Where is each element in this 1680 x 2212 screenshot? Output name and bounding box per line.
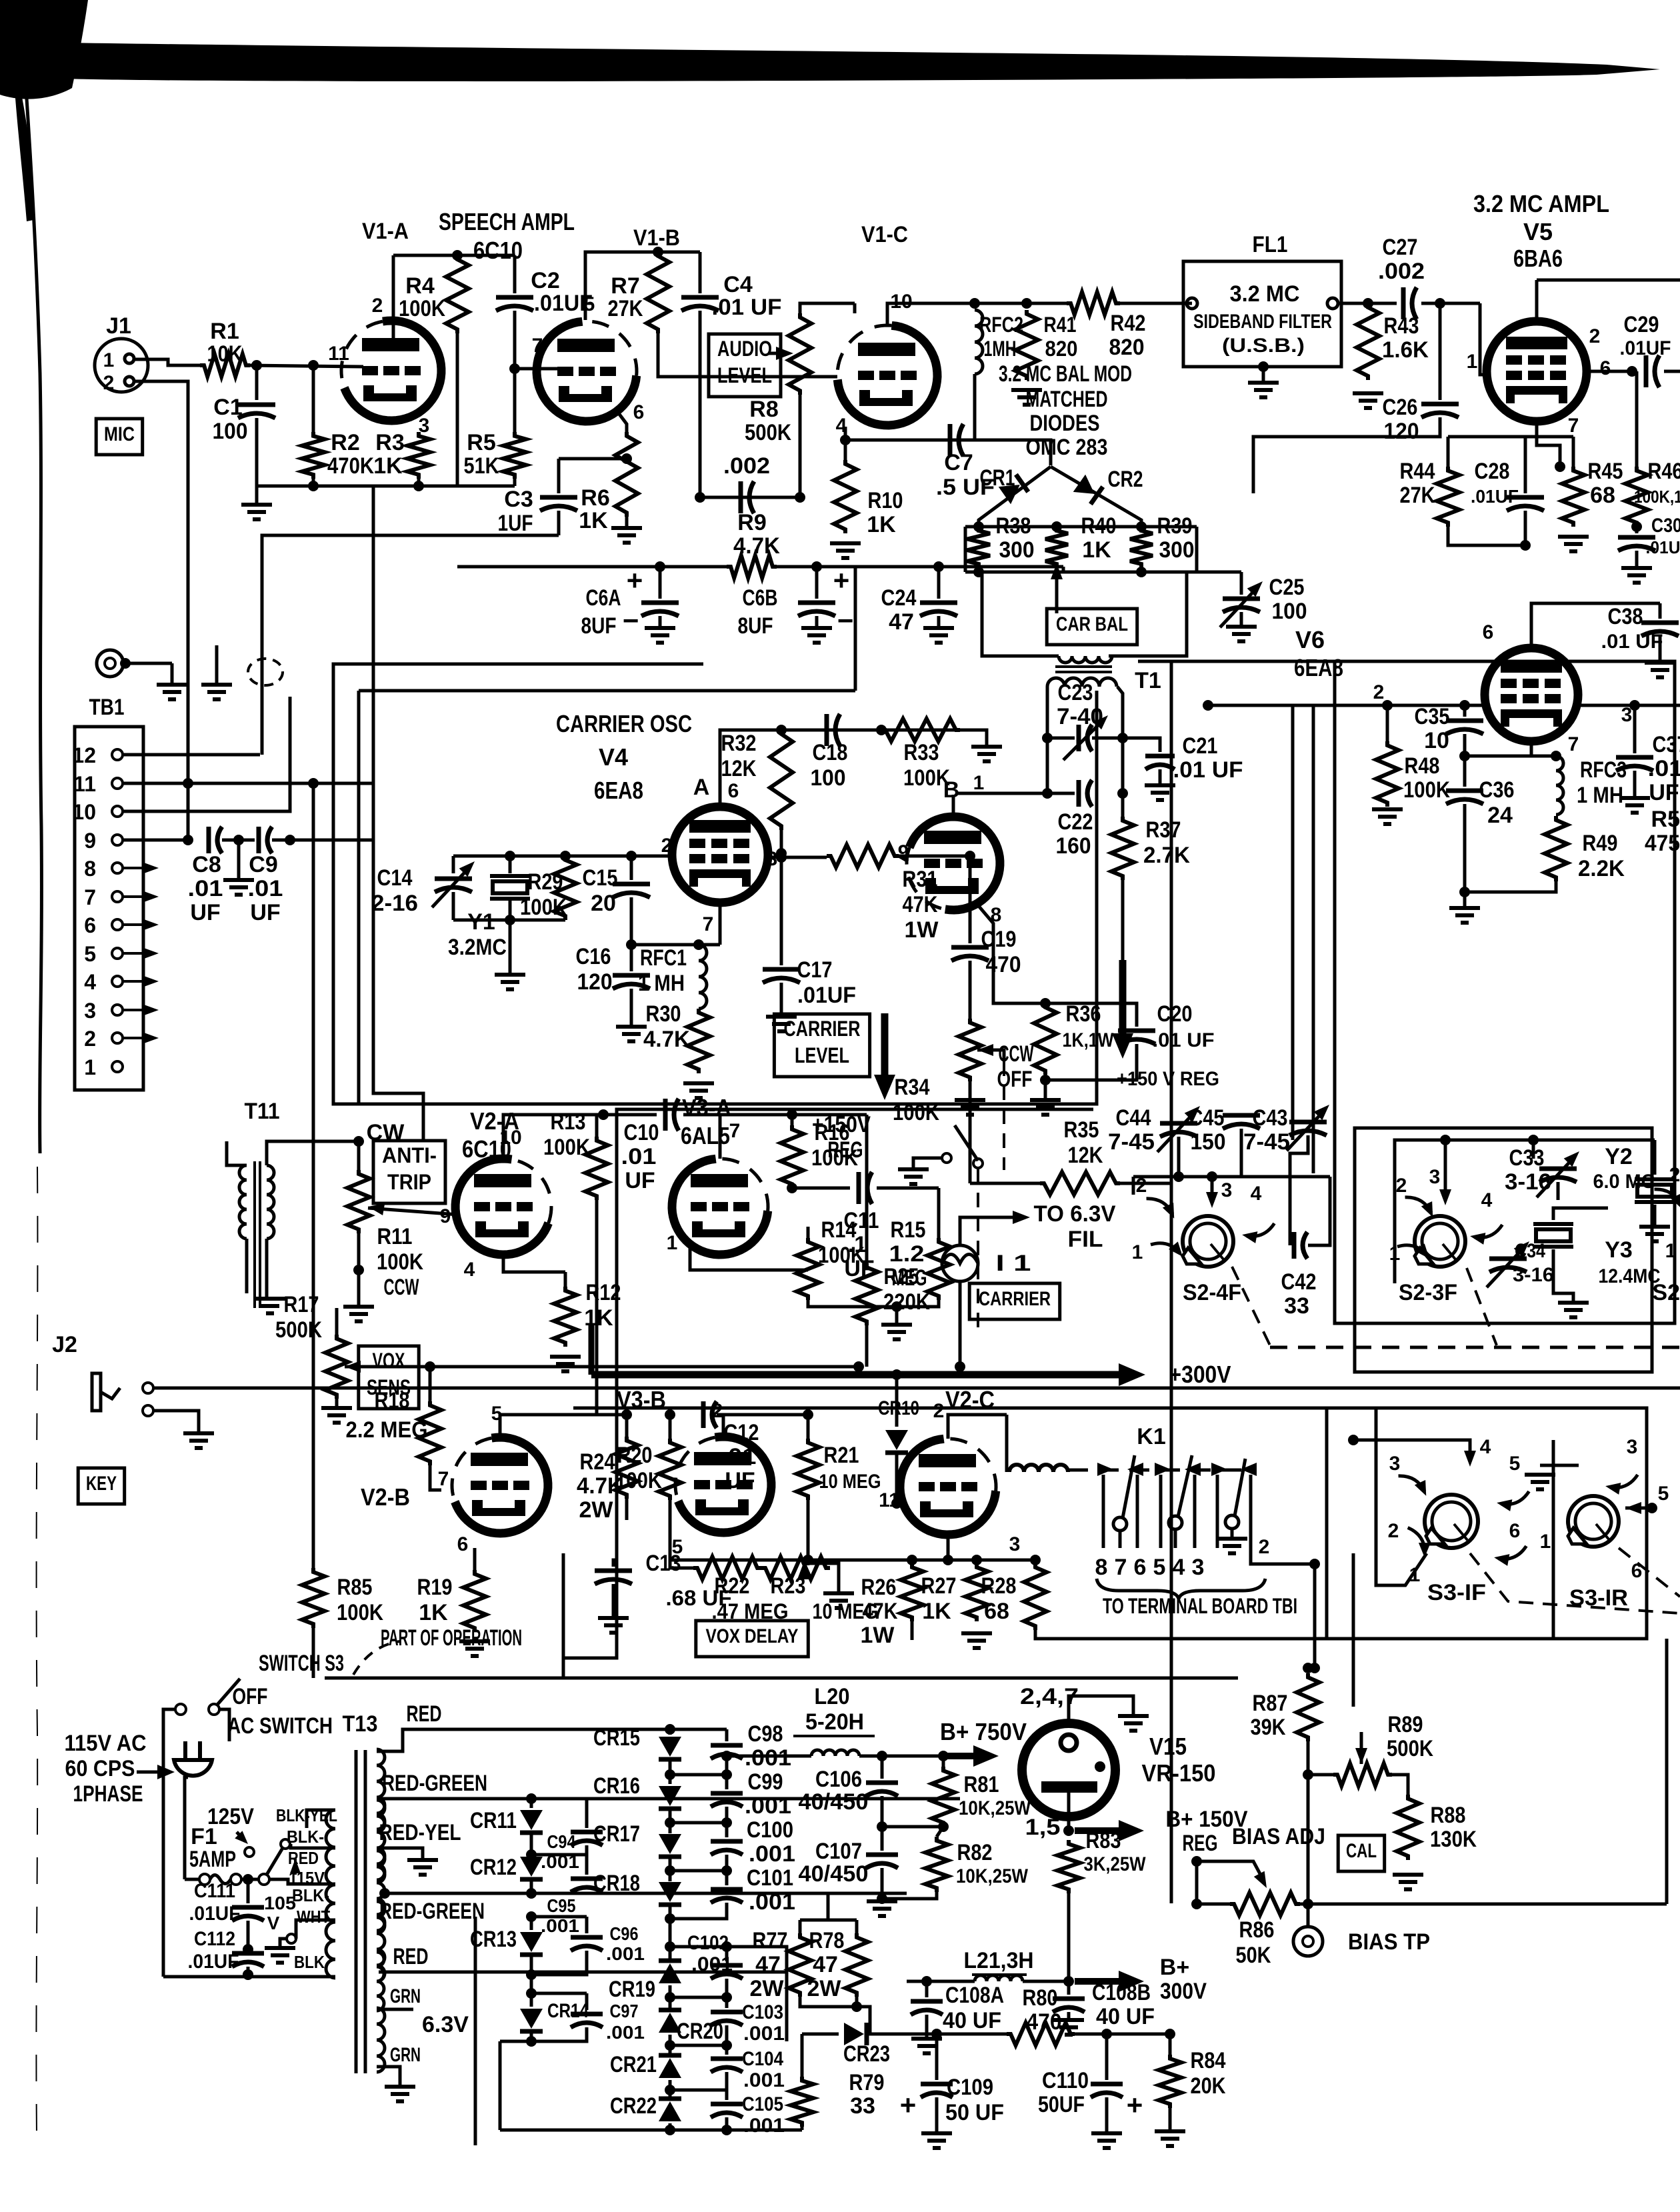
capacitor C17: [780, 853, 783, 965]
ground: [509, 920, 512, 973]
hook contact: [1494, 1537, 1528, 1569]
resistor R27: [975, 1560, 979, 1563]
capacitor .002: [739, 481, 743, 513]
svg-text:RED-YEL: RED-YEL: [379, 1820, 461, 1845]
svg-text:470K: 470K: [327, 453, 374, 479]
dashed pointer: [353, 1641, 400, 1675]
resistor R45: [1562, 467, 1585, 527]
transformer T1 secondary: [1047, 678, 1117, 687]
svg-text:Y1: Y1: [467, 909, 495, 935]
svg-text:R19: R19: [417, 1575, 453, 1600]
wire: [474, 1917, 477, 2145]
svg-text:27K: 27K: [608, 296, 643, 321]
diode CR18: [659, 1882, 681, 1902]
svg-text:3: 3: [1009, 1533, 1021, 1555]
svg-text:R18: R18: [375, 1388, 410, 1413]
diode CR22: [659, 2101, 681, 2121]
svg-text:+: +: [1127, 2089, 1143, 2121]
svg-text:R87: R87: [1253, 1691, 1288, 1716]
svg-text:10K: 10K: [207, 341, 243, 367]
wire: [768, 856, 827, 859]
svg-text:20: 20: [591, 891, 616, 916]
svg-text:.001: .001: [745, 1793, 791, 1819]
wire cathode: [975, 901, 1045, 1003]
capacitor C22: [958, 792, 1075, 795]
arrow bias: [1197, 1861, 1263, 1880]
svg-text:C24: C24: [881, 585, 917, 611]
wire: [1308, 1773, 1333, 1777]
svg-text:100K: 100K: [337, 1600, 383, 1625]
svg-text:V3-A: V3-A: [682, 1094, 731, 1121]
svg-text:12: 12: [72, 743, 96, 767]
switch S3 ac: [175, 1704, 186, 1715]
svg-text:.01UF: .01UF: [1471, 486, 1519, 507]
svg-text:Y2: Y2: [1605, 1144, 1633, 1169]
diode CR2: [1073, 475, 1103, 505]
svg-text:4.7K: 4.7K: [733, 533, 780, 559]
svg-text:C100: C100: [747, 1817, 793, 1843]
svg-text:R27: R27: [921, 1573, 957, 1599]
svg-text:TO TERMINAL BOARD TBI: TO TERMINAL BOARD TBI: [1103, 1594, 1297, 1618]
terminal TB1-12: [112, 749, 123, 760]
svg-text:B+ 750V: B+ 750V: [940, 1718, 1027, 1745]
wire: [960, 1217, 1019, 1245]
svg-text:500K: 500K: [1387, 1736, 1433, 1761]
svg-text:100K: 100K: [615, 1468, 662, 1493]
transformer T13 core: [355, 1750, 358, 2073]
svg-text:1K: 1K: [1082, 537, 1111, 563]
svg-text:47: 47: [889, 609, 914, 635]
svg-text:1: 1: [1665, 1240, 1677, 1262]
arrow TB1-5: [123, 952, 151, 955]
svg-text:R11: R11: [377, 1224, 413, 1249]
resistor R21: [797, 1439, 819, 1500]
svg-text:.01 UF: .01 UF: [712, 295, 782, 320]
svg-text:BLK-: BLK-: [292, 1885, 329, 1905]
svg-text:C102: C102: [687, 1932, 729, 1954]
svg-text:CR17: CR17: [593, 1821, 640, 1847]
wire: [185, 1878, 199, 1881]
wire: [1120, 302, 1192, 305]
svg-text:BLK: BLK: [294, 1952, 325, 1972]
wire: [1055, 572, 1059, 613]
resistor R26: [911, 1560, 914, 1563]
svg-text:1MH: 1MH: [984, 337, 1017, 361]
svg-text:A: A: [693, 775, 710, 800]
svg-text:2.2K: 2.2K: [1578, 856, 1625, 881]
capacitor C3: [559, 457, 627, 461]
wire tap 125: [291, 1844, 335, 1848]
svg-text:7: 7: [729, 1120, 741, 1142]
arrow: [237, 1832, 245, 1841]
resistor R42: [1067, 292, 1120, 315]
svg-text:UF: UF: [250, 900, 280, 925]
label CAR BAL: [1047, 609, 1137, 645]
svg-text:6: 6: [728, 780, 739, 802]
diode CR20: [659, 2013, 681, 2033]
svg-text:100K: 100K: [811, 1145, 858, 1171]
svg-text:S2-4F: S2-4F: [1183, 1280, 1241, 1305]
wire: [1531, 603, 1660, 644]
wire: [1353, 1440, 1470, 1457]
svg-text:40 UF: 40 UF: [943, 2008, 1001, 2033]
resistor R20: [659, 1439, 681, 1500]
svg-text:R78: R78: [809, 1928, 845, 1953]
arrow R23: [797, 1563, 809, 1579]
svg-text:105: 105: [264, 1893, 296, 1913]
svg-text:1K: 1K: [867, 512, 896, 537]
capacitor C6B: [815, 567, 819, 599]
ground: [255, 486, 259, 503]
brace: [1097, 1579, 1265, 1599]
svg-text:−: −: [837, 605, 854, 636]
svg-text:C19: C19: [981, 927, 1017, 952]
svg-text:C94: C94: [547, 1831, 576, 1852]
svg-text:TB1: TB1: [89, 695, 125, 720]
hook contact: [1497, 1482, 1531, 1514]
svg-text:820: 820: [1109, 335, 1145, 360]
svg-text:6AL5: 6AL5: [681, 1122, 730, 1149]
capacitor C104: [725, 2045, 729, 2055]
svg-text:R83: R83: [1086, 1828, 1121, 1853]
svg-text:39K: 39K: [1251, 1715, 1286, 1740]
hook contact: [1397, 1243, 1429, 1259]
wire: [453, 919, 565, 922]
resistor R6: [615, 432, 638, 517]
enclosure box inner: [359, 689, 855, 693]
wire: [1395, 1140, 1533, 1283]
svg-text:C23: C23: [1058, 680, 1093, 705]
svg-text:68: 68: [1590, 483, 1615, 508]
wire: [312, 783, 315, 1568]
svg-text:4: 4: [464, 1259, 475, 1281]
svg-text:C95: C95: [547, 1895, 576, 1916]
svg-text:R1: R1: [210, 319, 239, 344]
capacitor C100: [725, 1823, 729, 1837]
wire: [723, 1413, 808, 1417]
wire: [1535, 280, 1539, 321]
svg-text:11: 11: [73, 772, 96, 796]
svg-text:CR1: CR1: [980, 465, 1015, 491]
wire mod: [979, 467, 1051, 527]
svg-text:C29: C29: [1624, 312, 1659, 337]
wire long vertical: [1312, 705, 1315, 1173]
capacitor C29: [1644, 355, 1649, 387]
tube V2-B: [455, 1437, 548, 1533]
svg-text:5: 5: [1658, 1483, 1669, 1505]
wire: [1267, 1175, 1330, 1179]
svg-text:5: 5: [1153, 1555, 1166, 1580]
svg-text:470: 470: [986, 952, 1021, 977]
ground: [645, 626, 675, 630]
label CARRIER LEVEL: [774, 1014, 869, 1077]
ground: [237, 840, 241, 879]
capacitor C42: [1289, 1200, 1292, 1245]
resistor R36: [1034, 1003, 1057, 1075]
wire: [700, 496, 800, 499]
resistor R44: [1447, 437, 1450, 467]
svg-text:7: 7: [1568, 733, 1579, 755]
svg-text:C26: C26: [1383, 395, 1418, 420]
svg-text:CR10: CR10: [878, 1397, 919, 1419]
svg-text:100: 100: [811, 765, 846, 791]
svg-text:UF: UF: [625, 1168, 655, 1193]
svg-text:TRIP: TRIP: [387, 1170, 431, 1194]
svg-text:C107: C107: [815, 1839, 862, 1864]
svg-text:R5: R5: [1651, 807, 1680, 832]
wire: [163, 1709, 175, 1977]
svg-text:10 MEG: 10 MEG: [819, 1471, 881, 1493]
wire: [134, 359, 200, 365]
svg-text:100K: 100K: [520, 895, 567, 920]
capacitor C8: [207, 827, 211, 853]
svg-text:1K,1W: 1K,1W: [1063, 1029, 1115, 1051]
potentiometer R8: [789, 313, 811, 395]
dashed link: [977, 1169, 979, 1330]
ground: [1217, 1537, 1247, 1541]
svg-text:CCW: CCW: [384, 1275, 420, 1300]
terminal TB1-4: [112, 976, 123, 987]
capacitor C21: [1123, 738, 1160, 752]
svg-text:R79: R79: [849, 2070, 885, 2095]
svg-text:12K: 12K: [721, 756, 757, 781]
capacitor C1: [255, 365, 259, 400]
resistor R37: [1121, 793, 1125, 817]
svg-text:C22: C22: [1058, 809, 1093, 835]
wire: [1587, 370, 1632, 373]
svg-text:2: 2: [1669, 1164, 1680, 1186]
variable capacitor C43: [1289, 1120, 1327, 1125]
arrow TB1-7: [123, 895, 151, 898]
wire RED-YEL: [381, 1848, 423, 1859]
ground: [183, 1431, 214, 1435]
svg-text:RFC2: RFC2: [979, 313, 1023, 337]
dashed link: [1619, 1548, 1680, 1597]
ground: [895, 1307, 899, 1323]
svg-text:GRN: GRN: [390, 1985, 421, 2007]
dashed link: [1467, 1268, 1497, 1345]
svg-text:R9: R9: [737, 510, 766, 535]
svg-text:1.2: 1.2: [889, 1241, 925, 1267]
svg-text:KEY: KEY: [86, 1473, 117, 1495]
svg-text:ANTI-: ANTI-: [382, 1143, 437, 1167]
svg-text:51K: 51K: [464, 453, 499, 479]
ground: [1639, 1225, 1670, 1229]
ground: [867, 1899, 897, 1903]
svg-text:.002: .002: [723, 453, 770, 479]
svg-text:UF: UF: [1649, 780, 1679, 805]
svg-text:1 MH: 1 MH: [638, 971, 685, 996]
svg-text:40 UF: 40 UF: [1096, 2004, 1155, 2029]
svg-text:.001: .001: [743, 2069, 785, 2091]
svg-text:B+: B+: [1160, 1955, 1189, 1980]
svg-text:3.2 MC BAL MOD: 3.2 MC BAL MOD: [999, 361, 1132, 387]
wire: [1313, 1564, 1317, 1668]
terminal board TB1: [75, 727, 143, 1090]
wire: [245, 1239, 249, 1293]
svg-text:.001: .001: [541, 1915, 579, 1936]
svg-text:R39: R39: [1157, 513, 1193, 539]
capacitor C27: [1401, 287, 1406, 319]
dashed link: [1003, 1061, 1005, 1170]
svg-text:L20: L20: [815, 1684, 850, 1709]
wire: [1251, 1560, 1315, 1564]
wire: [948, 1415, 1007, 1439]
svg-text:C110: C110: [1042, 2068, 1089, 2093]
svg-text:VOX: VOX: [373, 1349, 405, 1373]
svg-text:C37: C37: [1653, 732, 1680, 757]
svg-text:J1: J1: [106, 313, 131, 339]
bold arrow +150V REG: [1119, 960, 1127, 1045]
svg-text:.01UF: .01UF: [1646, 537, 1680, 557]
svg-text:100K: 100K: [893, 1100, 939, 1125]
capacitor C110: [1105, 2034, 1109, 2080]
svg-text:V3-B: V3-B: [617, 1386, 666, 1413]
svg-text:PART OF OPERATION: PART OF OPERATION: [381, 1625, 522, 1651]
svg-text:300: 300: [1159, 537, 1195, 563]
tube V3-B: [678, 1437, 771, 1533]
svg-text:T13: T13: [343, 1711, 378, 1737]
svg-text:MIC: MIC: [104, 423, 135, 445]
svg-text:C106: C106: [815, 1767, 862, 1792]
resistor R49: [1545, 816, 1567, 881]
arrow TB1-3: [123, 1009, 151, 1011]
svg-text:R38: R38: [996, 513, 1031, 539]
resistor R31: [827, 845, 899, 867]
rotary switch S2-3F: [1415, 1216, 1465, 1267]
resistor R9: [727, 555, 777, 578]
svg-text:V4: V4: [599, 743, 628, 771]
terminal: [1327, 298, 1338, 309]
capacitor C28: [1524, 467, 1527, 493]
wire: [969, 1081, 972, 1099]
svg-text:1: 1: [1540, 1531, 1551, 1553]
transformer T13 secondary: [377, 1749, 385, 1829]
svg-text:R82: R82: [957, 1840, 993, 1865]
wire: [453, 855, 672, 858]
wire: [1307, 1775, 1310, 1904]
svg-text:3: 3: [1429, 1166, 1441, 1188]
svg-text:6: 6: [457, 1533, 469, 1555]
diode CR10: [895, 1375, 899, 1427]
svg-text:CARRIER: CARRIER: [979, 1288, 1051, 1310]
diode CR17: [659, 1834, 681, 1854]
svg-text:150: 150: [1191, 1129, 1226, 1155]
capacitor C37: [1633, 705, 1637, 753]
resistor R85: [302, 1568, 325, 1628]
resistor R25: [855, 1263, 878, 1325]
label AUDIO LEVEL: [709, 334, 781, 397]
svg-text:RED: RED: [407, 1701, 442, 1727]
capacitor C98: [725, 1729, 729, 1741]
svg-text:1K: 1K: [419, 1600, 448, 1625]
svg-text:1,5: 1,5: [1025, 1815, 1061, 1840]
svg-text:C99: C99: [748, 1769, 783, 1795]
svg-text:33: 33: [1284, 1293, 1309, 1319]
svg-text:50UF: 50UF: [1038, 2092, 1085, 2117]
resistor R82: [925, 1837, 948, 1892]
relay levers: [1113, 1517, 1127, 1531]
svg-text:+300V: +300V: [1169, 1361, 1231, 1388]
ground: [611, 526, 642, 530]
wire RED top: [377, 1729, 727, 1751]
svg-text:120: 120: [1384, 419, 1419, 444]
wire: [393, 254, 515, 257]
svg-text:C4: C4: [723, 272, 753, 297]
svg-text:C8: C8: [192, 852, 221, 877]
svg-text:R13: R13: [551, 1109, 586, 1135]
svg-text:V15: V15: [1149, 1733, 1187, 1760]
svg-text:.002: .002: [1378, 259, 1425, 284]
svg-text:REG: REG: [1183, 1831, 1218, 1856]
svg-text:CR14: CR14: [547, 2000, 589, 2022]
wire: [1062, 567, 1065, 572]
resistor R83: [1057, 1840, 1080, 1893]
svg-text:C112: C112: [194, 1928, 235, 1950]
svg-text:100K: 100K: [818, 1243, 865, 1268]
svg-text:1: 1: [84, 1055, 96, 1079]
ground: [923, 626, 954, 630]
capacitor C95: [585, 1855, 589, 1875]
wire: [123, 697, 290, 811]
svg-text:R33: R33: [904, 740, 939, 765]
svg-text:SPEECH AMPL: SPEECH AMPL: [439, 208, 575, 235]
diode CR21: [659, 2058, 681, 2078]
ground: [1558, 1301, 1589, 1305]
scan corner blob: [0, 0, 88, 99]
resistor R87: [1297, 1673, 1319, 1741]
wire: [1352, 1553, 1355, 1707]
svg-text:C96: C96: [610, 1923, 639, 1944]
hook contact 1: [1151, 1241, 1183, 1257]
svg-text:C1: C1: [213, 395, 242, 420]
diode CR15: [669, 1729, 672, 1735]
svg-text:2: 2: [661, 835, 673, 857]
svg-text:CR15: CR15: [593, 1725, 640, 1751]
svg-text:R81: R81: [964, 1772, 999, 1797]
svg-text:R77: R77: [753, 1928, 788, 1953]
svg-text:27K: 27K: [1400, 483, 1435, 508]
resistor R5: [503, 432, 526, 479]
svg-text:C3: C3: [504, 487, 533, 512]
resistor R88: [1397, 1795, 1419, 1860]
svg-text:40/450: 40/450: [799, 1789, 869, 1815]
svg-text:40/450: 40/450: [799, 1861, 869, 1887]
variable capacitor C23: [1047, 737, 1075, 740]
diode CR16: [669, 1775, 672, 1784]
wire: [262, 535, 559, 755]
svg-text:500K: 500K: [745, 420, 791, 445]
svg-text:R21: R21: [824, 1443, 859, 1468]
diode CR12: [520, 1857, 543, 1877]
tube V3-A: [672, 1159, 768, 1255]
capacitor C108A: [925, 1981, 929, 1997]
svg-text:C109: C109: [947, 2075, 993, 2100]
svg-text:VOX DELAY: VOX DELAY: [706, 1625, 799, 1647]
capacitor C11: [792, 1187, 850, 1190]
svg-text:R29: R29: [528, 869, 563, 895]
wire: [1013, 1559, 1035, 1562]
resistor R77: [789, 1933, 811, 1997]
svg-text:500K: 500K: [275, 1317, 322, 1343]
resistor R30: [687, 1009, 710, 1073]
wire: [372, 486, 375, 783]
ground: [385, 2085, 415, 2089]
wire: [267, 1141, 359, 1165]
dashed bus: [1270, 1346, 1680, 1349]
svg-text:J2: J2: [52, 1332, 77, 1357]
diode CR1: [999, 475, 1029, 505]
